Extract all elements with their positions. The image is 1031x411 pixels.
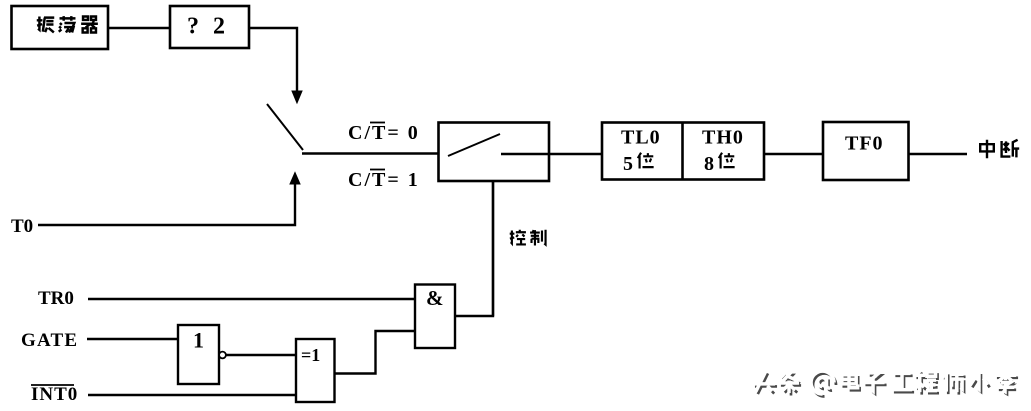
wire control vertical xyxy=(492,181,494,316)
NOT gate output bubble xyxy=(219,352,226,359)
wire TR0 to AND gate xyxy=(88,298,415,300)
label interrupt (中断) xyxy=(980,140,994,158)
svg-text:8: 8 xyxy=(704,153,714,175)
wire contact inside mode box to TL0 xyxy=(501,153,602,155)
wire oscillator to divider xyxy=(108,27,170,29)
switch blade inside mode box xyxy=(448,134,500,156)
wire GATE to NOT gate xyxy=(87,338,178,340)
svg-text:TR0: TR0 xyxy=(38,288,74,309)
wire T0 to switch contact xyxy=(38,183,295,225)
label control (控制) xyxy=(510,230,526,245)
switch blade (diagonal) xyxy=(267,104,303,150)
svg-text:?: ? xyxy=(187,14,199,40)
wire divider to switch contact xyxy=(249,28,297,92)
svg-text:GATE: GATE xyxy=(21,330,78,351)
wire TF0 to interrupt xyxy=(909,153,968,155)
svg-text:TH0: TH0 xyxy=(702,127,744,149)
svg-text:=1: =1 xyxy=(301,345,320,365)
arrowhead down (counter input contact) xyxy=(292,91,302,103)
box TL0/TH0 xyxy=(602,123,764,180)
arrowhead up (T0 contact) xyxy=(290,173,300,185)
box oscillator (振荡器) xyxy=(12,6,109,49)
svg-text:TF0: TF0 xyxy=(845,133,884,155)
svg-text:2: 2 xyxy=(213,14,225,40)
box mode switch xyxy=(439,123,550,182)
watermark 头条@电子工程师小李 xyxy=(753,370,1018,396)
AND gate U1 (&) xyxy=(415,285,455,349)
XOR gate U3 (=1) xyxy=(296,339,335,402)
svg-text:TL0: TL0 xyxy=(621,127,661,149)
svg-text:1: 1 xyxy=(193,328,204,353)
NOT gate U2 (1) xyxy=(178,325,219,384)
wire XOR output to AND gate input xyxy=(335,331,416,374)
wire AND output to control line xyxy=(455,181,493,316)
wire switch to mode box xyxy=(302,152,439,154)
wire TH0 to TF0 xyxy=(764,153,823,155)
svg-text:T0: T0 xyxy=(11,216,33,237)
svg-text:INT0: INT0 xyxy=(31,384,78,405)
wire NOT to XOR gate xyxy=(226,354,296,356)
svg-text:C/T= 1: C/T= 1 xyxy=(348,169,420,191)
svg-text:C/T= 0: C/T= 0 xyxy=(348,122,420,144)
svg-text:5: 5 xyxy=(623,153,633,175)
svg-text:&: & xyxy=(426,286,444,310)
box divider (? 2) xyxy=(170,6,249,48)
wire INT0 to XOR gate xyxy=(88,394,296,396)
box TF0 xyxy=(823,122,909,180)
